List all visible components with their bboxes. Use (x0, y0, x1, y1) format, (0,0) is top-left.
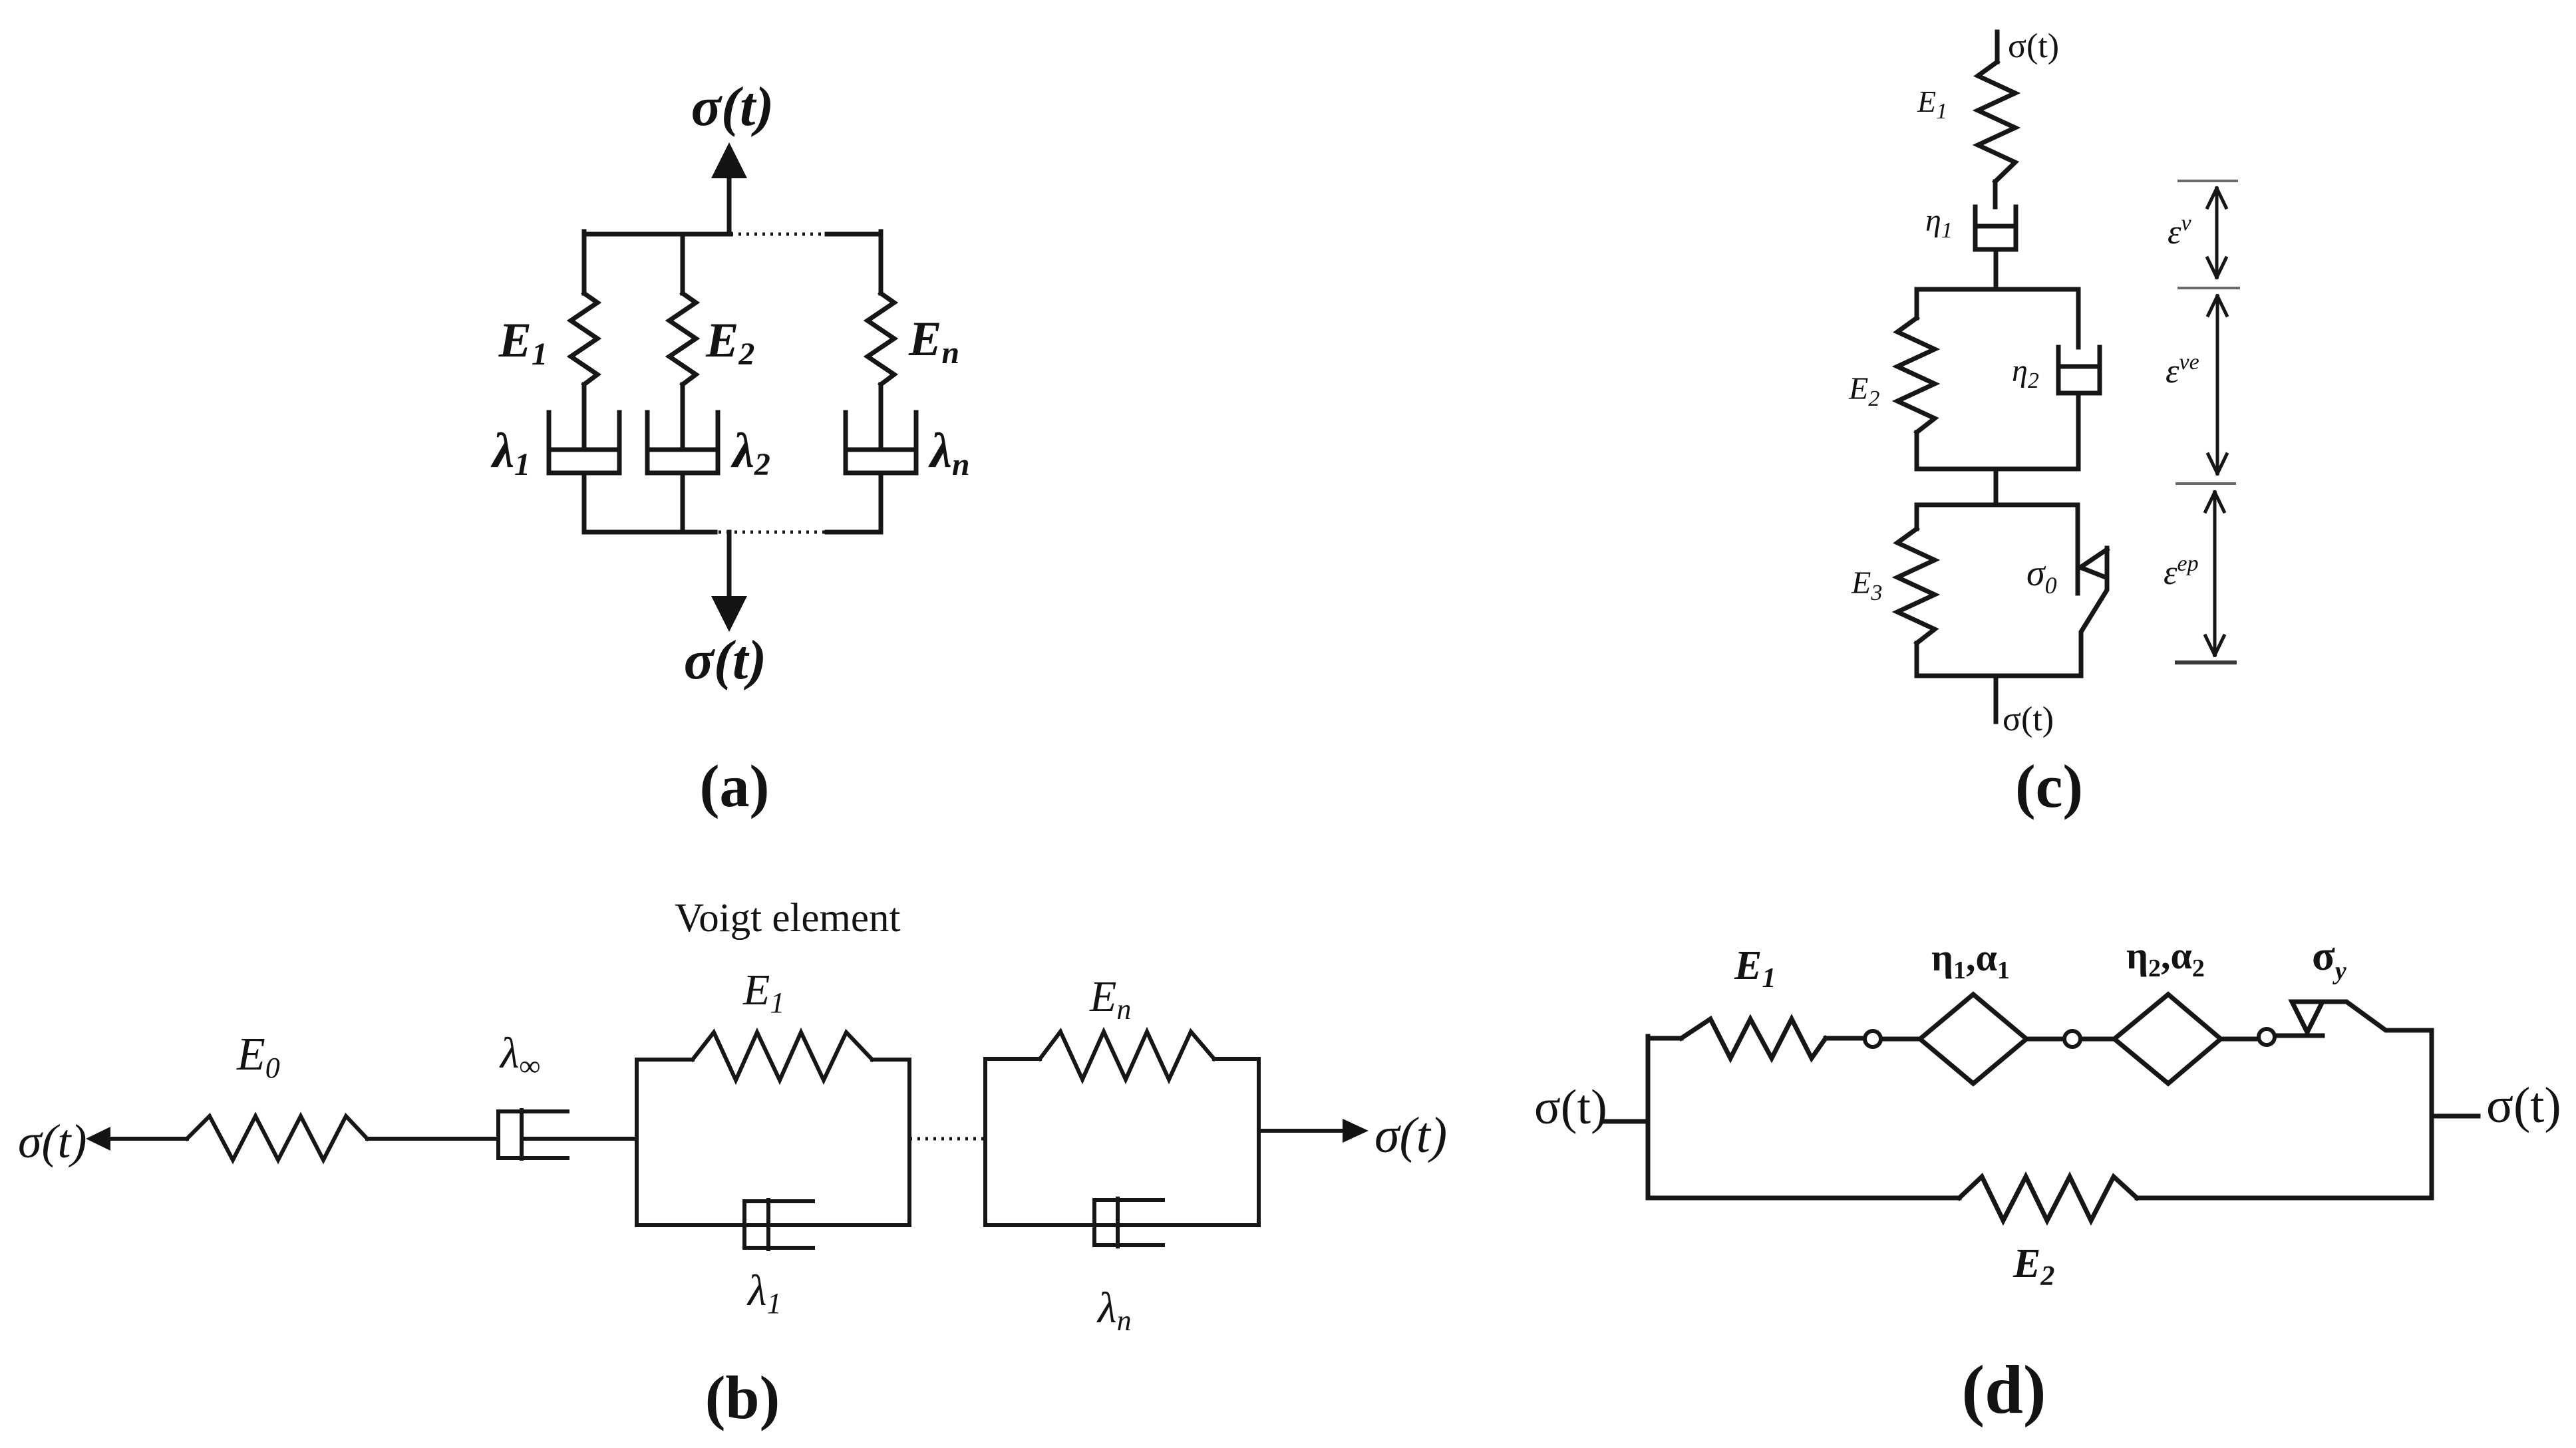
dashpot lambda-inf (498, 1110, 567, 1159)
wire top-left stub (1648, 1036, 1681, 1041)
arrow down (applied stress) (727, 532, 732, 597)
wire bottom bus dotted (719, 531, 828, 534)
wire dashpot1 to box (1994, 249, 1999, 289)
box3 left wire upper (1915, 505, 1919, 529)
wire node2 to diamond2 (2081, 1037, 2114, 1042)
svg-text:σ(t): σ(t) (691, 76, 774, 138)
Kelvin box left wire upper (1915, 289, 1919, 318)
svg-text:(d): (d) (1961, 1352, 2046, 1428)
svg-text:σ(t): σ(t) (2008, 27, 2059, 65)
wire branch n bottom (879, 473, 884, 532)
spring En (1040, 1032, 1214, 1080)
wire branch2 bottom (681, 473, 685, 532)
dashpot eta2 (2058, 347, 2100, 393)
dashpot lambda-n (1094, 1199, 1163, 1246)
Voigt box 1 top wire right (872, 1058, 909, 1062)
wire top lead (1995, 32, 2000, 62)
wire diamond2 to node3 (2221, 1037, 2258, 1042)
Kelvin box right wire upper (2076, 289, 2081, 347)
wire dashpot rod to box1 (522, 1137, 637, 1141)
Kelvin box bottom wire (1917, 467, 2078, 472)
spring E2 (1959, 1177, 2137, 1221)
spring E1 (693, 1032, 872, 1080)
box3 top wire (1917, 503, 2078, 507)
wire dotted between Voigt elements (909, 1137, 985, 1141)
strain marker bar 1 (2179, 180, 2237, 182)
wire top bus solid right (827, 232, 881, 237)
wire to dashpot (367, 1137, 498, 1141)
svg-text:σ(t): σ(t) (1374, 1107, 1447, 1163)
svg-text:Voigt element: Voigt element (675, 896, 900, 941)
wire right lead (2432, 1114, 2478, 1119)
fractional element diamond 1 (1920, 994, 2026, 1084)
wire bottom bus solid left (584, 530, 715, 535)
Voigt box 1 left wire (635, 1060, 639, 1225)
Kelvin box right wire lower (2076, 393, 2081, 469)
wire kelvin to box3 (1994, 469, 1999, 505)
wire top bus dotted (730, 233, 828, 236)
box3 bottom wire (1917, 674, 2078, 678)
strain marker bar 2 (2179, 287, 2239, 289)
svg-text:σ(t): σ(t) (18, 1115, 86, 1168)
svg-text:σ(t): σ(t) (1534, 1080, 1607, 1135)
Voigt box n left wire (983, 1059, 987, 1225)
arrow right (stress) (1343, 1119, 1368, 1143)
strain arrow eps-ep (2205, 492, 2224, 655)
wire node1 to diamond1 (1881, 1037, 1920, 1042)
spring E1 (571, 293, 597, 384)
spring E3 (1897, 529, 1935, 643)
wire left vertical (1646, 1036, 1651, 1198)
Kelvin box top wire (1917, 287, 2078, 292)
wire branch n top (879, 231, 884, 293)
wire left lead (1605, 1119, 1648, 1124)
node circle 2 (2064, 1031, 2080, 1047)
arrow up (applied stress) (727, 174, 732, 234)
Kelvin box left wire lower (1915, 432, 1919, 469)
dashpot lambda2 (647, 412, 718, 473)
wire branch2 top (681, 234, 685, 293)
strain arrow eps-v (2207, 188, 2226, 277)
wire spring to dashpot1 (1993, 182, 1998, 207)
dashpot lambda-n (846, 412, 916, 473)
wire right lead (1259, 1129, 1344, 1133)
Voigt box 1 bottom wire (637, 1223, 909, 1227)
wire rod into dashpot 2 (681, 384, 685, 447)
Voigt box 1 right wire (907, 1060, 911, 1225)
Voigt box n bottom wire (985, 1223, 1259, 1227)
dashpot lambda1 (549, 412, 619, 473)
box3 left wire lower (1915, 643, 1919, 676)
wire rod into dashpot 1 (582, 384, 587, 447)
strain marker bar 4 (2177, 660, 2235, 664)
spring E1 (1978, 62, 2015, 182)
svg-text:σ(t): σ(t) (684, 629, 767, 691)
wire diamond1 to node2 (2026, 1037, 2064, 1042)
spring E0 (187, 1116, 367, 1160)
spring E2 (669, 293, 696, 384)
wire right vertical (2430, 1032, 2434, 1198)
Voigt box n right wire (1257, 1059, 1261, 1225)
strain marker bar 3 (2177, 482, 2235, 485)
fractional element diamond 2 (2114, 994, 2221, 1084)
wire slider top to right (2323, 1002, 2432, 1030)
wire spring to node1 (1826, 1036, 1864, 1041)
spring E1 (1681, 1019, 1826, 1058)
strain arrow eps-ve (2208, 296, 2227, 474)
svg-text:(c): (c) (2015, 752, 2083, 820)
box3 right wire upper (2076, 505, 2080, 593)
arrow left (stress) (86, 1127, 110, 1151)
svg-text:σ(t): σ(t) (2003, 700, 2054, 738)
wire branch1 bottom (582, 473, 587, 532)
dashpot eta1 (1975, 207, 2016, 249)
wire node3 to slider (2275, 1034, 2323, 1038)
wire top bus solid left (584, 232, 730, 237)
wire bottom bus solid right (827, 530, 881, 535)
node circle 1 (1865, 1031, 1881, 1047)
Voigt box 1 top wire left (637, 1058, 693, 1062)
wire rod into dashpot n (879, 384, 884, 447)
wire bottom lead (1994, 676, 1999, 722)
wire bottom bar left (1648, 1196, 1959, 1201)
svg-text:σ(t): σ(t) (2486, 1078, 2561, 1133)
friction slider sigma-y triangle (2292, 1002, 2323, 1032)
wire bottom bar right (2137, 1196, 2432, 1201)
svg-text:(a): (a) (700, 754, 770, 819)
spring E2 (1897, 318, 1935, 432)
svg-text:(b): (b) (705, 1364, 780, 1431)
friction slider sigma0 (2080, 548, 2107, 676)
Voigt box n top wire right (1214, 1057, 1259, 1061)
node circle 3 (2259, 1029, 2275, 1045)
wire branch1 top (582, 231, 587, 293)
spring En (868, 293, 894, 384)
Voigt box n top wire left (985, 1057, 1040, 1061)
dashpot lambda1 (744, 1200, 813, 1249)
